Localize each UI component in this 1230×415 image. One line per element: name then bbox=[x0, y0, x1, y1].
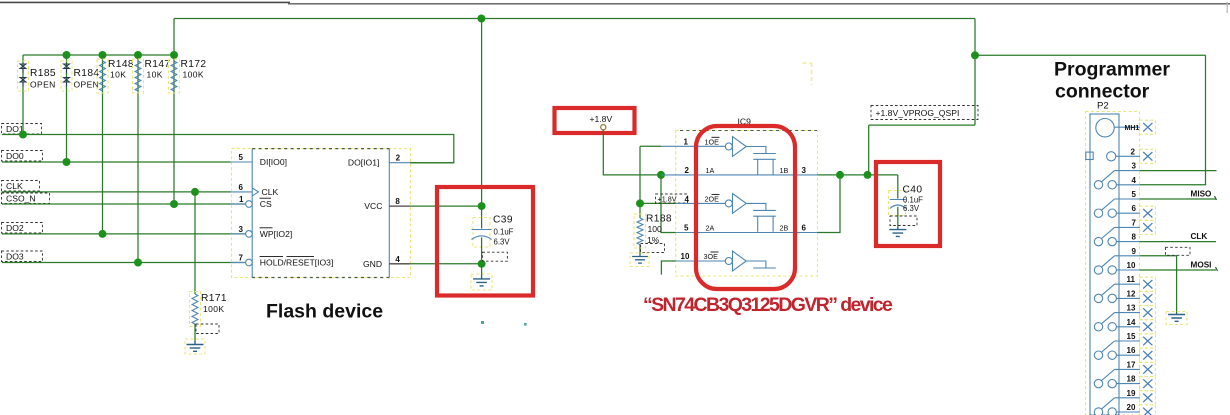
pin 8 VCC bbox=[364, 197, 410, 211]
svg-text:8: 8 bbox=[1132, 233, 1137, 242]
ground below C40 bbox=[889, 227, 906, 236]
svg-text:C39: C39 bbox=[493, 215, 513, 226]
wire: 1OE from R188 net bbox=[640, 145, 661, 147]
wire net DO2 bbox=[2, 233, 246, 235]
connector P2 body bbox=[1090, 114, 1119, 415]
connector pin 20 bbox=[1094, 398, 1140, 415]
connector pin 17 bbox=[1115, 360, 1141, 369]
svg-text:8: 8 bbox=[395, 197, 400, 206]
wire: vertical from top bus down to resistor bus bbox=[173, 19, 175, 56]
annotation dashed box at C39 bbox=[482, 252, 507, 261]
connector pin 9 bbox=[1115, 247, 1141, 256]
svg-text:14: 14 bbox=[1127, 318, 1136, 327]
connector pin 3 bbox=[1115, 162, 1141, 171]
wire net CSO_N bbox=[2, 203, 246, 205]
node: R147 to DO3 bbox=[134, 259, 142, 267]
net label +1.8V_VPROG_QSPI bbox=[871, 106, 978, 120]
net label CLK bbox=[2, 181, 40, 192]
svg-text:MISO: MISO bbox=[1191, 190, 1213, 199]
svg-text:10: 10 bbox=[681, 252, 690, 261]
power port +1.8V with red annotation box bbox=[555, 108, 635, 133]
net label CSO_N bbox=[2, 193, 50, 204]
node: R171 to CLK bbox=[191, 188, 199, 196]
svg-text:1%: 1% bbox=[647, 235, 660, 245]
wire: CLK net pin 8 bbox=[1140, 241, 1216, 243]
resistor R172 100K bbox=[169, 55, 207, 204]
svg-text:5: 5 bbox=[684, 224, 689, 233]
annotation red text SN74CB3Q3125DGVR device bbox=[643, 294, 893, 316]
svg-text:4: 4 bbox=[1132, 176, 1137, 185]
no-connect X at pin 2 bbox=[1140, 149, 1156, 163]
svg-text:16: 16 bbox=[1127, 346, 1136, 355]
connector pin 14 bbox=[1094, 313, 1140, 331]
svg-text:DO[IO1]: DO[IO1] bbox=[348, 157, 380, 167]
node: R172 to CSO_N bbox=[170, 200, 178, 208]
connector pin MH1 bbox=[1096, 119, 1140, 137]
connector pin 6 bbox=[1094, 199, 1140, 217]
svg-text:10K: 10K bbox=[147, 70, 163, 80]
IC9 pin 5 2A bbox=[676, 224, 818, 233]
svg-text:3: 3 bbox=[239, 225, 244, 234]
connector pin 12 bbox=[1094, 284, 1140, 302]
wire: pin 3 net bbox=[1140, 170, 1217, 172]
wire: GND pin4 to C39 bbox=[410, 263, 481, 265]
net label DO2 bbox=[2, 223, 43, 234]
pin 3 WP[IO2] (active low WP) bbox=[231, 225, 293, 239]
svg-text:13: 13 bbox=[1127, 304, 1136, 313]
no-connect X at pin 20 bbox=[1140, 405, 1156, 415]
wire: MOSI net pin 10 bbox=[1140, 269, 1216, 271]
svg-text:6.3V: 6.3V bbox=[494, 238, 511, 247]
annotation red box around C39 bbox=[437, 187, 533, 296]
svg-text:VCC: VCC bbox=[364, 201, 382, 211]
label P2 bbox=[1097, 101, 1109, 112]
label IC9 bbox=[738, 117, 752, 127]
IC9 pin 6 2B bbox=[780, 224, 807, 233]
svg-text:4: 4 bbox=[685, 195, 690, 204]
wire: 1B output net to C40 bbox=[818, 174, 898, 176]
svg-text:10: 10 bbox=[1127, 261, 1136, 270]
connector pin 4 bbox=[1094, 171, 1140, 189]
wire: MISO net pin 5 bbox=[1140, 198, 1216, 200]
node: junction 2B tie bbox=[836, 171, 844, 179]
ground below R171 bbox=[185, 339, 205, 354]
svg-text:3OE: 3OE bbox=[704, 252, 719, 261]
pin 2 DO[IO1] bbox=[348, 154, 410, 168]
node: R185 to DO1 bbox=[19, 131, 27, 139]
no-connect X at pin 16 bbox=[1140, 348, 1156, 362]
wire: label underline run bbox=[869, 124, 975, 126]
svg-text:20: 20 bbox=[1127, 403, 1136, 412]
svg-text:3: 3 bbox=[1132, 162, 1137, 171]
svg-text:1: 1 bbox=[239, 195, 244, 204]
no-connect X at pin 15 bbox=[1140, 334, 1156, 348]
svg-text:12: 12 bbox=[1127, 289, 1136, 298]
net label DO0 bbox=[2, 151, 43, 162]
svg-text:100K: 100K bbox=[203, 304, 224, 314]
svg-text:9: 9 bbox=[1132, 247, 1137, 256]
IC9 pin 2 1A bbox=[661, 166, 818, 175]
label: Flash device bbox=[266, 301, 383, 323]
svg-text:19: 19 bbox=[1127, 389, 1136, 398]
stray mark 2 bbox=[524, 323, 527, 326]
wire: pin 9 to ground bbox=[1140, 256, 1177, 314]
svg-text:DO2: DO2 bbox=[6, 223, 24, 233]
svg-text:17: 17 bbox=[1127, 360, 1136, 369]
connector pin 8 bbox=[1094, 227, 1140, 245]
buffer switch 1 bbox=[725, 137, 776, 175]
net label +1.8V at 2OE bbox=[656, 194, 688, 204]
svg-text:6.3V: 6.3V bbox=[903, 204, 920, 213]
svg-text:WP[IO2]: WP[IO2] bbox=[260, 229, 292, 239]
svg-text:HOLD/RESET[IO3]: HOLD/RESET[IO3] bbox=[260, 258, 334, 268]
wire net DO1 bbox=[2, 135, 454, 163]
capacitor C39 0.1uF 6.3V bbox=[472, 215, 514, 264]
IC9 pin 10 3OE bbox=[676, 252, 726, 261]
connector P2 highlight box bbox=[1086, 112, 1140, 415]
no-connect X at pin 14 bbox=[1140, 320, 1156, 334]
resistor R171 100K bbox=[190, 192, 227, 341]
node: junction 1A / +1.8V bbox=[657, 171, 665, 179]
node: R184 to DO0 bbox=[63, 158, 71, 166]
node: GND junction at C39 bbox=[478, 260, 486, 268]
svg-text:2B: 2B bbox=[780, 224, 789, 233]
svg-text:OPEN: OPEN bbox=[74, 80, 100, 90]
svg-text:R171: R171 bbox=[201, 293, 227, 304]
svg-text:2A: 2A bbox=[706, 224, 715, 233]
svg-text:R147: R147 bbox=[145, 59, 171, 70]
wire: VCC vertical from top bus to C39 bbox=[481, 19, 483, 229]
svg-text:2: 2 bbox=[685, 166, 690, 175]
svg-text:R184: R184 bbox=[74, 68, 100, 79]
annotation dashed box at C40 bbox=[890, 216, 917, 226]
connector pin 15 bbox=[1115, 332, 1141, 341]
svg-text:R148: R148 bbox=[108, 59, 134, 70]
svg-text:CS: CS bbox=[260, 199, 272, 209]
svg-text:5: 5 bbox=[239, 153, 244, 162]
annotation dashed box under R188 bbox=[641, 244, 665, 253]
wire net DO3 bbox=[2, 262, 246, 264]
svg-text:Flash device: Flash device bbox=[266, 301, 383, 323]
svg-text:+1.8V: +1.8V bbox=[590, 114, 613, 124]
stray mark 1 bbox=[481, 321, 484, 324]
connector pin 2 bbox=[1086, 147, 1140, 161]
no-connect X at pin 7 bbox=[1140, 220, 1156, 234]
no-connect X at MH1 bbox=[1140, 120, 1156, 134]
svg-text:6: 6 bbox=[239, 183, 244, 192]
IC9 pin 4 2OE bbox=[676, 194, 726, 204]
svg-text:15: 15 bbox=[1127, 332, 1136, 341]
svg-text:10K: 10K bbox=[110, 70, 126, 80]
connector pin 11 bbox=[1115, 275, 1141, 284]
node: junction R188 top / 2OE bbox=[636, 199, 644, 207]
pin 5 DI[IO0] bbox=[231, 153, 288, 167]
wire: bus to programmer connector bbox=[975, 54, 1206, 56]
svg-text:OPEN: OPEN bbox=[30, 80, 56, 90]
connector pin 10 bbox=[1094, 256, 1140, 274]
svg-text:4: 4 bbox=[395, 255, 400, 264]
annotation dashed box at pin 9 bbox=[1166, 247, 1191, 255]
svg-text:DI[IO0]: DI[IO0] bbox=[260, 157, 287, 167]
net label MOSI bbox=[1191, 261, 1218, 272]
svg-text:1A: 1A bbox=[706, 166, 715, 175]
pin 1 CS (active low) bbox=[231, 195, 273, 209]
svg-text:1OE: 1OE bbox=[705, 137, 720, 146]
sheet top border line bbox=[0, 2, 1230, 13]
svg-text:+1.8V_VPROG_QSPI: +1.8V_VPROG_QSPI bbox=[876, 108, 960, 118]
no-connect X at pin 12 bbox=[1140, 291, 1156, 305]
wire: 2OE horizontal at R188 top bbox=[640, 202, 676, 204]
no-connect X at pin 6 bbox=[1140, 206, 1156, 220]
svg-text:2: 2 bbox=[396, 154, 401, 163]
wire net CLK bbox=[2, 191, 231, 193]
wire: VCC pin8 to C39 bbox=[410, 205, 481, 207]
node: junction resistor bus R147 bbox=[134, 51, 142, 59]
wire: vertical from top bus corner bbox=[974, 19, 976, 126]
resistor R184 (OPEN) bbox=[61, 55, 99, 162]
node: VCC junction at C39 bbox=[478, 202, 486, 210]
svg-text:1B: 1B bbox=[780, 166, 789, 175]
annotation red rounded box around buffers bbox=[696, 126, 795, 289]
IC9 pin 3 1B bbox=[780, 166, 807, 175]
wire: vertical to +1.8V_VPROG_QSPI label bbox=[868, 125, 870, 175]
pin 6 CLK bbox=[231, 183, 279, 197]
wire net DO0 bbox=[2, 161, 231, 163]
wire: 2B up to 1B output net bbox=[818, 175, 841, 233]
node: junction top bus at VCC drop bbox=[477, 15, 485, 23]
pin 7 HOLD/RESET[IO3] (active low) bbox=[231, 254, 334, 268]
wire: +1.8V down to 1A bbox=[603, 130, 661, 175]
svg-text:7: 7 bbox=[239, 254, 244, 263]
svg-text:“SN74CB3Q3125DGVR” device: “SN74CB3Q3125DGVR” device bbox=[643, 294, 893, 316]
svg-text:0.1uF: 0.1uF bbox=[494, 228, 514, 237]
svg-text:MOSI: MOSI bbox=[1191, 261, 1212, 270]
buffer switch 2 bbox=[725, 194, 776, 232]
wire: DO pin2 to DO1 net (green up-turn) bbox=[410, 162, 454, 164]
connector pin 5 bbox=[1115, 190, 1141, 199]
svg-text:2: 2 bbox=[1131, 147, 1136, 156]
resistor R147 10K bbox=[133, 55, 171, 263]
resistor R185 (OPEN) bbox=[18, 55, 56, 135]
connector pin 7 bbox=[1115, 218, 1141, 227]
svg-text:DO0: DO0 bbox=[6, 151, 24, 161]
svg-text:6: 6 bbox=[802, 224, 807, 233]
buffer switch 3 (no channel) bbox=[725, 251, 776, 271]
wire: pin 4 to +1.8V bus bbox=[1140, 55, 1206, 185]
svg-text:R172: R172 bbox=[181, 59, 207, 70]
net label DO3 bbox=[2, 251, 43, 262]
faint leftover highlight mark bbox=[803, 63, 813, 85]
connector pin 19 bbox=[1115, 389, 1141, 398]
svg-text:3: 3 bbox=[802, 166, 807, 175]
no-connect X at pin 19 bbox=[1140, 391, 1156, 405]
label Programmer connector bbox=[1054, 59, 1170, 103]
pin 4 GND bbox=[363, 255, 410, 269]
no-connect X at pin 11 bbox=[1140, 277, 1156, 291]
wire: vertical 1OE down to R188 bbox=[639, 146, 641, 218]
node: junction at top right bus bbox=[971, 51, 979, 59]
net label DO1 bbox=[2, 124, 42, 135]
svg-text:GND: GND bbox=[363, 259, 382, 269]
no-connect X at pin 13 bbox=[1140, 306, 1156, 320]
flash device body U1 bbox=[252, 149, 389, 278]
ground below C39 bbox=[471, 264, 492, 290]
svg-text:100: 100 bbox=[648, 224, 663, 234]
svg-text:5: 5 bbox=[1132, 190, 1137, 199]
svg-text:CSO_N: CSO_N bbox=[6, 194, 36, 204]
svg-text:100K: 100K bbox=[183, 70, 204, 80]
wire: pull-up resistor top bus bbox=[23, 54, 174, 56]
svg-text:MH1: MH1 bbox=[1125, 125, 1140, 132]
node: junction resistor bus R172 bbox=[170, 51, 178, 59]
net label MISO bbox=[1191, 190, 1217, 201]
net label CLK bbox=[1191, 232, 1208, 241]
svg-text:Programmer: Programmer bbox=[1054, 59, 1170, 81]
svg-text:+1.8V: +1.8V bbox=[658, 195, 677, 204]
svg-text:6: 6 bbox=[1132, 204, 1137, 213]
no-connect X at pin 17 bbox=[1140, 362, 1156, 376]
svg-text:11: 11 bbox=[1127, 275, 1136, 284]
annotation dashed box under R171 bbox=[196, 324, 219, 334]
capacitor C40 0.1uF 6.3V bbox=[889, 175, 924, 227]
wire: vertical +1.8V tie 1A to 2OE to 2A bbox=[661, 175, 676, 233]
connector pin 13 bbox=[1115, 304, 1141, 313]
connector pin 16 bbox=[1094, 341, 1140, 359]
node: junction resistor bus R184 bbox=[63, 51, 71, 59]
ground below pin 9 wire bbox=[1166, 312, 1187, 325]
annotation red box around C40 bbox=[876, 162, 940, 246]
wire: +1.8V top bus horizontal bbox=[174, 18, 975, 20]
IC9 pin 1 1OE bbox=[661, 137, 725, 146]
resistor R188 100 1% bbox=[634, 214, 672, 256]
svg-text:CLK: CLK bbox=[1191, 232, 1208, 241]
svg-text:DO3: DO3 bbox=[6, 252, 24, 262]
resistor R148 10K bbox=[97, 55, 134, 234]
svg-text:CLK: CLK bbox=[262, 187, 279, 197]
no-connect X at pin 18 bbox=[1140, 377, 1156, 391]
svg-text:C40: C40 bbox=[903, 185, 923, 196]
svg-text:18: 18 bbox=[1127, 375, 1136, 384]
flash device symbol highlight box bbox=[232, 149, 411, 278]
svg-text:1: 1 bbox=[684, 137, 689, 146]
node: R148 to DO2 bbox=[99, 230, 107, 238]
svg-text:P2: P2 bbox=[1097, 101, 1109, 112]
ground below R188 bbox=[630, 253, 649, 267]
svg-text:7: 7 bbox=[1132, 218, 1137, 227]
svg-text:2OE: 2OE bbox=[705, 194, 720, 203]
node: junction VPROG label bbox=[864, 171, 872, 179]
svg-text:R185: R185 bbox=[30, 68, 56, 79]
node: junction resistor bus R148 bbox=[99, 51, 107, 59]
svg-text:connector: connector bbox=[1055, 81, 1150, 103]
wire: 3OE stub bbox=[661, 261, 675, 275]
IC9 symbol highlight box bbox=[676, 131, 818, 277]
svg-text:CLK: CLK bbox=[6, 181, 23, 191]
connector pin 18 bbox=[1094, 369, 1140, 387]
